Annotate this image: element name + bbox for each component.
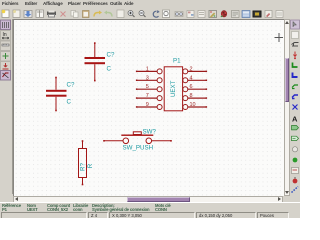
- svg-text:10: 10: [190, 102, 196, 108]
- print icon: [47, 11, 56, 18]
- junction tool: [292, 147, 297, 152]
- cursor shape button: [1, 52, 11, 62]
- pcbnew icon: [265, 11, 272, 18]
- redo icon: [104, 11, 112, 17]
- status bar: [0, 202, 300, 219]
- bus-bus entry tool: [292, 95, 298, 99]
- svg-text:UEXT: UEXT: [170, 80, 177, 97]
- place wire tool: [293, 63, 298, 68]
- grid dots: [13, 20, 283, 196]
- cut icon: [61, 12, 66, 17]
- right pin numbers: [190, 66, 196, 108]
- svg-text:1: 1: [146, 66, 149, 72]
- svg-text:R: R: [87, 163, 94, 168]
- zoom out icon: [139, 11, 146, 18]
- print preview icon: [117, 10, 124, 18]
- svg-text:C?: C?: [107, 51, 115, 58]
- hierarchy sheet tool: [292, 32, 299, 39]
- save icon: [24, 11, 32, 18]
- left toolbar: [0, 19, 13, 194]
- right toolbar: [290, 19, 300, 204]
- text label tool: [292, 115, 298, 124]
- sheet tool: [293, 158, 298, 163]
- schematic canvas: [13, 19, 284, 196]
- svg-text:4: 4: [190, 75, 193, 81]
- paste icon: [83, 11, 90, 18]
- svg-text:SW?: SW?: [143, 128, 157, 135]
- svg-text:R?: R?: [79, 162, 86, 170]
- cvpcb icon: [253, 11, 261, 17]
- graphic line tool: [292, 187, 299, 193]
- svg-text:6: 6: [190, 84, 193, 90]
- zoom fit icon: [163, 10, 170, 18]
- capacitor C1: [85, 42, 106, 81]
- horizontal scrollbar: [13, 196, 283, 203]
- svg-text:8: 8: [190, 93, 193, 99]
- no connect tool: [293, 105, 298, 110]
- library editor icon: [187, 11, 194, 18]
- hierarchical label tool: [292, 136, 299, 140]
- place power tool: [293, 52, 296, 60]
- grid button (selected): [1, 20, 11, 30]
- hierarchy navigate tool: [292, 43, 299, 47]
- vertical scrollbar: [284, 19, 290, 196]
- resistor R1: [79, 140, 87, 185]
- erc icon: [221, 11, 227, 17]
- redraw icon: [153, 10, 159, 17]
- connector pins left: [136, 68, 162, 109]
- page settings icon: [36, 10, 44, 18]
- bom icon: [242, 11, 250, 18]
- hidden pins button: [1, 62, 11, 71]
- svg-text:A: A: [292, 115, 298, 124]
- backannotate icon: [276, 11, 283, 18]
- annotate icon: [209, 11, 217, 18]
- open sheet icon: [13, 10, 20, 18]
- svg-text:7: 7: [146, 93, 149, 99]
- place bus tool: [293, 73, 298, 78]
- menu bar: [0, 0, 300, 10]
- left pin numbers: [146, 66, 149, 108]
- svg-text:2: 2: [190, 66, 193, 72]
- svg-text:9: 9: [146, 102, 149, 108]
- sheet pin tool: [293, 177, 298, 183]
- copy icon: [71, 11, 78, 18]
- cursor tool (selected): [291, 20, 300, 29]
- svg-text:C: C: [67, 98, 72, 105]
- netlist icon: [232, 11, 240, 18]
- svg-text:5: 5: [146, 84, 149, 90]
- find icon: [175, 12, 183, 17]
- crosshair cursor: [275, 33, 284, 42]
- undo icon: [94, 11, 102, 17]
- svg-text:P1: P1: [173, 57, 181, 64]
- units mm button: [1, 41, 11, 51]
- new sheet icon: [2, 10, 9, 18]
- library browse icon: [198, 11, 205, 18]
- top toolbar: [0, 9, 300, 20]
- switch SW1: [103, 131, 172, 143]
- import sheet pin tool: [292, 168, 299, 174]
- capacitor C2 (lower left): [46, 76, 67, 111]
- svg-text:C?: C?: [67, 81, 75, 88]
- global label tool: [292, 126, 299, 130]
- svg-text:C: C: [107, 65, 112, 72]
- connector pins right: [183, 68, 207, 109]
- units inches button: [1, 31, 11, 41]
- wire-bus entry tool: [292, 85, 298, 89]
- zoom in icon: [128, 11, 135, 18]
- hv wires button (selected): [1, 71, 11, 81]
- svg-text:3: 3: [146, 75, 149, 81]
- svg-text:SW_PUSH: SW_PUSH: [123, 144, 154, 151]
